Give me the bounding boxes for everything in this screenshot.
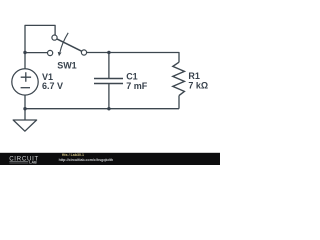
wire: V1 bottom lead to junction D bbox=[24, 95, 26, 109]
svg-text:6.7 V: 6.7 V bbox=[42, 81, 63, 91]
wire: V1 top lead up to junction A bbox=[24, 53, 26, 69]
wire: bottom rail from R1 to junction D bbox=[25, 108, 179, 110]
V1 plus sign bbox=[21, 72, 31, 81]
switch SW1 top throw contact bbox=[52, 35, 57, 40]
node D: junction dot bottom rail / V1 / ground bbox=[23, 107, 26, 110]
wire: C1 top lead from junction B bbox=[108, 53, 110, 79]
switch SW1 actuator arrowhead bbox=[58, 52, 62, 56]
wire: switch pole to R1 top corner bbox=[87, 53, 179, 63]
switch SW1 pole contact bbox=[81, 50, 86, 55]
ground bbox=[13, 120, 36, 131]
V1 minus sign bbox=[21, 87, 30, 89]
svg-text:ftts / Lab30.1: ftts / Lab30.1 bbox=[62, 153, 84, 157]
switch SW1 blade bbox=[57, 39, 82, 51]
svg-text:C1: C1 bbox=[126, 72, 138, 82]
switch SW1 actuator arrow arc bbox=[60, 33, 68, 52]
voltage source V1 body bbox=[12, 69, 38, 95]
wire: C1 bottom lead to junction C bbox=[108, 84, 110, 109]
svg-text:http://circuitlab.com/c/hsgqkd: http://circuitlab.com/c/hsgqkdth bbox=[59, 158, 114, 162]
switch SW1 left throw contact bbox=[48, 50, 53, 55]
wire: junction D down to ground bbox=[24, 109, 26, 120]
wire: R1 bottom lead bbox=[178, 96, 180, 109]
node B: junction dot top rail / C1 bbox=[107, 51, 110, 54]
capacitor C1 top plate bbox=[94, 78, 123, 80]
node C: junction dot bottom rail / C1 bbox=[107, 107, 110, 110]
footer watermark bar bbox=[0, 153, 220, 165]
svg-text:LAB: LAB bbox=[29, 161, 37, 165]
wire: junction A right to switch left throw bbox=[25, 52, 48, 54]
svg-text:R1: R1 bbox=[188, 71, 200, 81]
svg-text:7 kΩ: 7 kΩ bbox=[188, 80, 208, 90]
svg-text:SW1: SW1 bbox=[57, 61, 77, 71]
resistor R1 zigzag body bbox=[173, 62, 185, 95]
capacitor C1 bottom plate bbox=[94, 83, 123, 85]
footer CircuitLab logo underline strokes bbox=[9, 162, 28, 163]
svg-text:7 mF: 7 mF bbox=[126, 81, 148, 91]
node A: junction dot V1 top / switch throws bbox=[23, 51, 26, 54]
wire: junction A up and over to switch top throw bbox=[25, 25, 55, 52]
